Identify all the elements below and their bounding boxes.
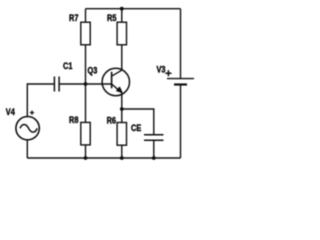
node R8 bottom junction bbox=[84, 156, 88, 160]
source V4 plus marker bbox=[30, 111, 34, 115]
node CE bottom junction bbox=[152, 156, 156, 160]
svg-text:R7: R7 bbox=[69, 12, 79, 23]
wire V4 bottom lead bbox=[26, 140, 28, 158]
AC source V4 bbox=[6, 106, 40, 140]
transistor Q3 emitter arrow bbox=[117, 87, 122, 92]
battery V3 bbox=[157, 64, 195, 85]
node R6 bottom junction bbox=[120, 156, 124, 160]
resistor R8 bbox=[69, 114, 90, 145]
transistor Q3 collector lead bbox=[112, 70, 122, 76]
wire R5 top lead bbox=[121, 9, 123, 23]
svg-text:CE: CE bbox=[131, 122, 142, 133]
resistor R6 bbox=[107, 115, 127, 146]
capacitor CE bbox=[131, 122, 164, 140]
wire base node down to R8 top bbox=[85, 84, 87, 122]
node base junction bbox=[84, 82, 88, 86]
wire R7 top lead bbox=[85, 9, 87, 23]
svg-text:R5: R5 bbox=[107, 12, 117, 23]
source V4 sine wave bbox=[20, 124, 37, 132]
wire C1 right plate to base node bbox=[60, 83, 86, 85]
wire R8 bottom lead bbox=[85, 145, 87, 158]
node emitter junction bbox=[120, 107, 124, 111]
svg-text:V3: V3 bbox=[157, 64, 166, 75]
svg-text:Q3: Q3 bbox=[88, 64, 98, 75]
wire emitter junction to CE top bbox=[122, 109, 154, 134]
svg-text:V4: V4 bbox=[6, 106, 15, 117]
transistor Q3 base bar bbox=[111, 72, 113, 89]
wire R7 bottom lead to base node bbox=[85, 45, 87, 84]
wire battery bottom to bottom rail bbox=[180, 85, 182, 158]
wire bottom rail ground return bbox=[27, 157, 180, 159]
wire CE bottom lead bbox=[153, 140, 155, 158]
wire V4 top to C1 bbox=[27, 84, 54, 117]
wire top rail VCC bbox=[86, 8, 181, 10]
transistor Q3 bbox=[86, 64, 130, 95]
capacitor C1 bbox=[54, 60, 72, 92]
node junction top rail / R5 bbox=[120, 7, 124, 11]
resistor R7 bbox=[69, 12, 90, 45]
wire emitter down to junction and R6 top bbox=[121, 96, 123, 123]
wire R5 bottom to collector bbox=[121, 45, 123, 70]
wire base lead bbox=[86, 83, 112, 85]
svg-text:C1: C1 bbox=[63, 60, 73, 71]
svg-text:R8: R8 bbox=[69, 114, 79, 125]
wire right rail to battery top bbox=[180, 9, 182, 78]
battery V3 negative plate bbox=[174, 83, 187, 85]
svg-text:R6: R6 bbox=[107, 115, 117, 126]
transistor Q3 emitter lead bbox=[112, 84, 122, 96]
resistor R5 bbox=[107, 12, 127, 45]
battery V3 plus marker bbox=[165, 70, 171, 76]
wire R6 bottom lead bbox=[121, 145, 123, 158]
